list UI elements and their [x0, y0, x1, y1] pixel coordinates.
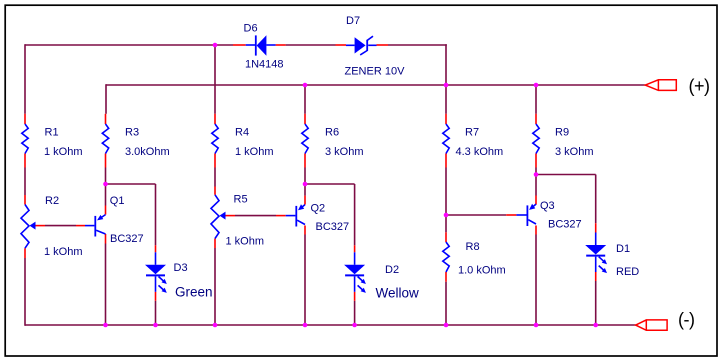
pin R1 bottom: [24, 154, 26, 168]
pin R3 top: [105, 114, 107, 124]
svg-text:D7: D7: [346, 15, 360, 27]
svg-text:RED: RED: [616, 266, 639, 278]
svg-text:1 kOhm: 1 kOhm: [226, 236, 265, 248]
svg-text:R2: R2: [45, 195, 59, 207]
pin D1 bottom: [595, 272, 597, 281]
svg-text:1N4148: 1N4148: [245, 59, 284, 71]
pin D3 top: [155, 245, 157, 252]
potentiometer R5: [211, 195, 226, 239]
pin R2 wiper: [35, 225, 46, 227]
svg-text:R8: R8: [466, 241, 480, 253]
resistor R4: [212, 124, 218, 154]
wire R6 column top: [304, 85, 306, 114]
resistor R3: [102, 124, 108, 154]
node bottom rail R5 junction: [213, 323, 218, 328]
wire D1 column upper: [595, 175, 597, 224]
svg-text:1 kOhm: 1 kOhm: [44, 146, 83, 158]
pin Q2 collector: [304, 226, 306, 235]
pin R6 top: [304, 114, 306, 124]
wire D2 column upper: [354, 184, 356, 245]
pin R5 bottom: [214, 239, 216, 249]
svg-text:Green: Green: [175, 285, 213, 300]
svg-text:Wellow: Wellow: [376, 286, 420, 301]
wire D1 to bottom rail: [595, 281, 597, 325]
wire node Q2 emitter to D2 branch: [305, 183, 355, 185]
svg-text:ZENER 10V: ZENER 10V: [345, 66, 406, 78]
LED D1: [585, 233, 607, 274]
resistor R7: [443, 124, 449, 154]
terminal plus: [645, 80, 676, 91]
pin R7 top: [445, 114, 447, 124]
pin D3 bottom: [155, 292, 157, 301]
wire R3 column top: [105, 84, 107, 114]
wire node Q1 emitter to D3 branch: [106, 183, 156, 185]
wire bottom rail: [25, 324, 636, 326]
pin Q3 collector: [535, 226, 537, 235]
pin R9 bottom: [535, 154, 537, 168]
pin R6 bottom: [304, 154, 306, 168]
wire R1 column top: [24, 44, 26, 114]
wire R2 to bottom rail: [24, 258, 26, 326]
wire R9 to Q3 emitter: [535, 168, 537, 196]
svg-text:D1: D1: [616, 243, 630, 255]
wire node R7-R8 to Q3 base: [446, 214, 506, 216]
wire R5 to bottom rail: [214, 248, 216, 325]
wire Q2 collector to bottom rail: [304, 235, 306, 326]
node bottom rail D3 junction: [153, 323, 158, 328]
wire R7 to R8 node: [445, 168, 447, 233]
wire R7 column top: [445, 85, 447, 114]
wire R4 to R5: [214, 168, 216, 187]
wire Q1 collector to bottom rail: [105, 244, 107, 326]
node plus rail R9 junction: [534, 83, 539, 88]
diode D6: [246, 35, 276, 56]
svg-text:R4: R4: [235, 127, 249, 139]
svg-text:D2: D2: [385, 264, 399, 276]
terminal minus: [636, 320, 667, 330]
pin Q3 emitter: [535, 196, 537, 205]
pin R2 top: [24, 195, 26, 205]
svg-text:Q2: Q2: [311, 203, 326, 215]
wire Q3 collector to bottom rail: [535, 235, 537, 326]
wire top rail left segment: [25, 44, 233, 46]
node bottom rail R8 junction: [444, 323, 449, 328]
svg-text:D3: D3: [174, 262, 188, 274]
svg-text:3 kOhm: 3 kOhm: [325, 146, 364, 158]
LED D3: [145, 252, 167, 293]
pin Q1 emitter: [105, 206, 107, 215]
pin Q1 collector: [105, 234, 107, 244]
pin R1 top: [24, 114, 26, 124]
resistor R9: [533, 124, 539, 154]
svg-text:R3: R3: [125, 127, 139, 139]
resistor R8: [443, 242, 449, 272]
svg-text:R6: R6: [325, 127, 339, 139]
node bottom rail Q3 junction: [534, 323, 539, 328]
transistor Q2: [286, 204, 305, 226]
svg-text:1 kOhm: 1 kOhm: [44, 246, 83, 258]
wire R4 column top: [214, 44, 216, 114]
pin R9 top: [535, 114, 537, 124]
wire R8 to bottom rail: [445, 282, 447, 325]
pin D7 right: [377, 44, 389, 46]
resistor R1: [22, 124, 28, 154]
potentiometer R2: [21, 205, 36, 249]
pin D7 left: [336, 44, 347, 46]
node R7 / Q3 base junction: [444, 213, 449, 218]
svg-text:R9: R9: [555, 127, 569, 139]
node bottom rail D1 junction: [593, 323, 598, 328]
pin R4 bottom: [214, 154, 216, 168]
svg-text:BC327: BC327: [548, 219, 582, 231]
wire R2 wiper to Q1 base: [45, 225, 76, 227]
svg-text:(+): (+): [689, 76, 710, 96]
svg-text:1.0 kOhm: 1.0 kOhm: [458, 265, 506, 277]
wire R6 to Q2 emitter: [304, 168, 306, 196]
zener diode D7: [346, 36, 377, 55]
node plus rail R7 junction: [444, 83, 449, 88]
svg-text:1 kOhm: 1 kOhm: [235, 146, 274, 158]
wire D3 column upper: [155, 184, 157, 245]
pin Q2 base: [276, 215, 286, 217]
wire R3 to Q1 emitter: [105, 168, 107, 206]
wire R5 wiper to Q2 base: [235, 215, 276, 217]
svg-text:3 kOhm: 3 kOhm: [555, 146, 594, 158]
pin R3 bottom: [105, 154, 107, 168]
node bottom rail Q1 junction: [103, 323, 108, 328]
svg-text:R5: R5: [234, 194, 248, 206]
transistor Q1: [85, 215, 106, 237]
node bottom rail Q2 junction: [303, 323, 308, 328]
svg-text:BC327: BC327: [316, 221, 350, 233]
svg-text:D6: D6: [244, 23, 258, 35]
wire top rail between D6 and D7: [286, 44, 336, 46]
pin R5 wiper: [225, 215, 236, 217]
wire top rail right segment: [388, 44, 447, 46]
svg-text:(-): (-): [678, 310, 694, 330]
node bottom rail D2 junction: [352, 323, 357, 328]
node top rail R4 junction: [213, 43, 218, 48]
wire D3 to bottom rail: [155, 301, 157, 325]
svg-text:4.3 kOhm: 4.3 kOhm: [456, 146, 504, 158]
node plus rail R6 junction: [303, 83, 308, 88]
svg-text:R7: R7: [465, 127, 479, 139]
pin D6 left: [233, 44, 246, 46]
pin R5 top: [214, 187, 216, 195]
pin Q2 emitter: [304, 196, 306, 205]
node Q2 emitter / D2 junction: [303, 182, 308, 187]
pin R8 top: [445, 232, 447, 242]
pin R2 bottom: [24, 248, 26, 258]
resistor R6: [302, 124, 308, 154]
wire R1 to R2: [24, 168, 26, 196]
wire R9 column top: [535, 85, 537, 114]
transistor Q3: [516, 204, 536, 226]
pin D6 right: [276, 44, 286, 46]
LED D2: [344, 252, 366, 293]
pin R8 bottom: [445, 272, 447, 282]
svg-text:R1: R1: [45, 127, 59, 139]
pin R7 bottom: [445, 154, 447, 168]
node R9 / D1 junction: [534, 172, 539, 177]
pin D2 top: [354, 245, 356, 252]
svg-text:BC327: BC327: [110, 233, 144, 245]
svg-text:3.0kOhm: 3.0kOhm: [125, 146, 170, 158]
wire node R9 to D1 branch: [536, 174, 596, 176]
svg-text:Q3: Q3: [540, 200, 555, 212]
wire plus rail: [106, 84, 645, 86]
svg-text:Q1: Q1: [110, 195, 125, 207]
node Q1 emitter / D3 junction: [103, 182, 108, 187]
pin Q1 base: [76, 225, 85, 227]
pin D1 top: [595, 223, 597, 232]
wire drop from top rail to plus rail: [445, 44, 447, 85]
pin R4 top: [214, 114, 216, 124]
pin D2 bottom: [354, 292, 356, 301]
wire D2 to bottom rail: [354, 301, 356, 325]
pin Q3 base: [506, 214, 516, 216]
